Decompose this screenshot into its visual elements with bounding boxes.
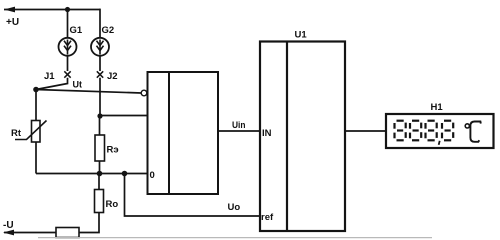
wire node B to amplifier second input — [100, 115, 148, 117]
current source G2 — [91, 38, 109, 56]
svg-text:G2: G2 — [102, 25, 115, 36]
resistor R3 (Re) — [95, 135, 105, 161]
degree symbol — [465, 124, 469, 128]
svg-text:IN: IN — [262, 128, 272, 139]
wire top rail corner to G2 — [99, 9, 101, 38]
wire resistor to -U arrow — [4, 232, 56, 234]
scan artifact bottom line — [38, 237, 432, 239]
wire R3 to bottom rail — [99, 161, 101, 174]
wire amplifier output Uin — [218, 130, 260, 132]
C letter of degC — [470, 122, 480, 142]
svg-text:Uin: Uin — [232, 120, 246, 131]
junction J2 — [97, 71, 103, 77]
-U supply arrow — [3, 230, 14, 236]
resistor Ro — [95, 190, 104, 213]
+U supply arrow — [4, 7, 100, 13]
svg-text:U1: U1 — [295, 30, 308, 41]
display digit 4 — [442, 121, 453, 141]
wire bottom rail — [36, 173, 148, 175]
resistor series unlabeled — [56, 228, 79, 238]
wire node A down to Rt — [35, 90, 37, 121]
wire Ro down and left to series resistor — [79, 213, 99, 233]
display digit 3 — [426, 121, 437, 141]
node D junction — [122, 171, 128, 177]
svg-text:+U: +U — [6, 17, 19, 28]
amplifier block — [148, 72, 219, 194]
node C junction — [97, 171, 103, 177]
amplifier input terminal circle — [141, 90, 147, 96]
wire top rail to G1 — [67, 10, 69, 38]
svg-text:G1: G1 — [70, 25, 83, 36]
node A junction — [33, 87, 39, 93]
node top junction — [65, 7, 70, 12]
wire Rt to bottom rail — [35, 142, 37, 174]
display decimal comma — [439, 141, 440, 145]
display digit 2 — [410, 121, 421, 141]
display H1 box — [386, 114, 494, 148]
wire node C to Ro — [98, 174, 100, 190]
svg-text:Rt: Rt — [11, 128, 22, 139]
svg-text:Ro: Ro — [106, 199, 119, 210]
wire node D to ref input Uo — [125, 174, 261, 217]
wire J1 to node A — [36, 78, 68, 90]
wire node B down to R3 — [99, 116, 101, 135]
wire U1 output to display H1 — [345, 130, 386, 132]
svg-text:0: 0 — [150, 170, 155, 181]
svg-text:Uo: Uo — [228, 202, 241, 213]
svg-text:J1: J1 — [44, 71, 55, 82]
display digit 1 — [395, 121, 406, 141]
svg-text:J2: J2 — [107, 71, 118, 82]
thermistor Rt — [15, 121, 47, 143]
current source G1 — [59, 38, 77, 56]
wire node A to amplifier + input — [36, 90, 141, 94]
svg-text:Rэ: Rэ — [107, 145, 119, 156]
svg-text:ref: ref — [261, 212, 274, 223]
node B junction — [97, 113, 102, 118]
svg-text:-U: -U — [3, 220, 14, 231]
svg-text:Ut: Ut — [73, 80, 83, 90]
wire J2 down through crossing to node B — [99, 78, 101, 116]
ADC block U1 — [260, 42, 345, 232]
wire G1 to J1 — [67, 56, 69, 71]
wire G2 to J2 — [99, 56, 101, 71]
svg-text:H1: H1 — [431, 102, 444, 113]
junction J1 — [64, 71, 70, 77]
